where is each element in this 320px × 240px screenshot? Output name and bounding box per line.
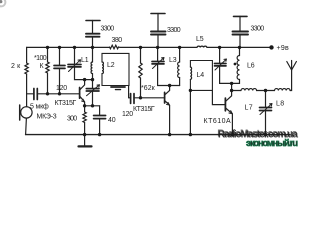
capacitor C1 3300 (86, 34, 100, 37)
svg-text:КТ610А: КТ610А (204, 118, 232, 125)
wire L3 bottom to node C (179, 78, 181, 86)
wire L1 bottom to node A (92, 74, 94, 80)
resistor R3 300 (83, 112, 86, 123)
wire rail down to trimmer C11 (219, 47, 221, 63)
svg-text:300: 300 (67, 116, 77, 123)
wire R1 to mic node (26, 74, 28, 107)
microphone BM1 MKE-3 (circle) (21, 107, 32, 118)
wire C2 to rail (157, 35, 159, 48)
svg-text:+9в: +9в (277, 45, 289, 52)
trimmer capacitor C11 (215, 64, 227, 66)
ground (top) for C3 (234, 15, 248, 17)
svg-text:L4: L4 (197, 72, 205, 79)
svg-text:120: 120 (122, 111, 133, 118)
wire C5 to base node (59, 68, 61, 93)
ground (top) for C2 (151, 13, 165, 15)
trimmer capacitor C7 (86, 89, 99, 91)
wire rail right segment to +9V terminal (207, 46, 272, 48)
inductor L8 (275, 89, 291, 91)
antenna WA1 (287, 61, 297, 71)
microphone membrane bar (19, 105, 21, 120)
svg-text:L1: L1 (81, 57, 89, 64)
wire C12 to ground rail (265, 111, 267, 135)
capacitor C2 3300 (151, 32, 166, 35)
inductor L4 loop box (190, 61, 212, 91)
transistor VT3 emitter lead with arrow (226, 108, 233, 135)
corner artifact mark (0, 0, 5, 6)
wire mic node to C4 (27, 93, 34, 95)
wire rail middle segment (119, 46, 198, 48)
wire collector node to L7 (232, 90, 241, 92)
wire node B down (emitter leg) (84, 106, 86, 112)
svg-text:L6: L6 (247, 63, 255, 70)
svg-text:2 к: 2 к (11, 63, 21, 70)
inductor L4 winding (190, 67, 191, 79)
node A wire (85, 79, 93, 81)
wire C3 to rail (239, 35, 241, 48)
svg-text:КТ315Г: КТ315Г (55, 100, 77, 107)
wire C9 to VT2 base node (134, 97, 141, 99)
inductor L3 (178, 62, 180, 78)
inductor L1 (91, 62, 92, 74)
transistor VT2 KT315G base bar (164, 92, 166, 103)
inductor L7 (241, 89, 257, 91)
ground (top) for C1 (86, 20, 100, 22)
wire C6 down and to collector node A (75, 67, 85, 80)
+9V terminal dot (269, 45, 273, 49)
wire C4 to base line of VT1 (37, 93, 79, 95)
wire C1 to rail (92, 37, 94, 47)
wire mic bottom to ground rail (25, 118, 28, 135)
transistor VT3 collector lead (226, 91, 232, 102)
transistor VT3 KT610A base bar (224, 98, 226, 111)
svg-text:3300: 3300 (167, 27, 181, 34)
ground symbol at L2 loop bottom (111, 86, 125, 88)
svg-text:5 мкф: 5 мкф (30, 104, 49, 111)
wire L8 to antenna (290, 70, 292, 91)
wire R2 to base node (47, 73, 49, 94)
svg-text:экономный.ru: экономный.ru (246, 138, 298, 148)
inductor L5 (series choke in rail) (197, 46, 207, 47)
capacitor C4 5uF plates (34, 89, 37, 100)
wire R3 to ground rail (84, 123, 86, 135)
wire rail down to L3 (179, 47, 181, 62)
wire L2 box to C9 (129, 86, 131, 98)
svg-text:L3: L3 (169, 57, 177, 64)
wire rail down to L6 (239, 47, 241, 55)
trimmer capacitor C12 (output) wire (265, 91, 267, 108)
svg-text:3300: 3300 (101, 26, 115, 33)
capacitor C9 120 (131, 94, 134, 104)
wire R4 to VT2 base node (140, 78, 142, 98)
transistor VT1 emitter lead with arrow (80, 96, 85, 106)
transistor VT1 collector lead (80, 80, 85, 90)
resistor R4 *62k (139, 63, 142, 78)
wire rail down to R4 (140, 47, 142, 63)
wire L4 loop to VT3 base (212, 90, 225, 104)
transistor VT2 collector lead (165, 86, 170, 95)
resistor R 380 (series in rail) (110, 45, 119, 49)
capacitor C3 3300 (233, 32, 249, 35)
capacitor C5 120 (54, 66, 65, 69)
svg-text:L2: L2 (107, 62, 115, 69)
svg-text:МКЭ-3: МКЭ-3 (37, 114, 57, 121)
ground symbol main (84, 135, 86, 146)
wire C1 ground stem (92, 21, 94, 34)
svg-text:КТ315Г: КТ315Г (133, 106, 155, 113)
trimmer capacitor C12 (260, 108, 272, 111)
wire rail down to L1 (92, 47, 94, 62)
wire rail down to trimmer C10 (157, 47, 159, 61)
wire rail down to trimmer C6 (74, 47, 76, 64)
resistor R2 *100K (46, 62, 49, 73)
wire L6 bottom to node D (232, 80, 240, 84)
svg-text:380: 380 (112, 37, 123, 44)
wire rail down to R1 (26, 47, 28, 63)
svg-text:*62к: *62к (141, 85, 156, 92)
transistor VT2 emitter lead with arrow (165, 101, 170, 135)
inductor L2 winding (102, 62, 103, 74)
svg-text:120: 120 (56, 85, 67, 92)
svg-text:L5: L5 (196, 36, 204, 43)
wire C11 down to node D (220, 66, 232, 84)
wire rail down to C5 (59, 47, 61, 65)
wire C2 ground stem (157, 14, 159, 32)
wire node B corner down to C8 (99, 106, 101, 116)
trimmer capacitor C10 (152, 62, 164, 64)
wire C3 ground stem (239, 16, 241, 31)
inductor L2 loop box (102, 53, 129, 85)
wire C10 down to node C (158, 64, 180, 86)
wire ground bottom rail (26, 134, 290, 136)
svg-text:40: 40 (108, 117, 116, 124)
wire +9V top rail left segment (27, 46, 110, 48)
trimmer capacitor C6 (68, 65, 81, 67)
wire C7 to emitter node B (92, 91, 94, 106)
capacitor C8 40 (94, 116, 106, 119)
wire rail down to R2 (47, 47, 49, 62)
wire L7 to L8 node (257, 90, 275, 92)
wire base node to VT2 (141, 97, 165, 99)
transistor VT1 KT315G base bar (79, 88, 81, 99)
svg-text:*100: *100 (34, 55, 47, 62)
svg-text:L8: L8 (276, 101, 284, 108)
node B wire (85, 105, 100, 107)
wire node A down to trimmer C7 (92, 80, 94, 89)
wire node D down to collector node (231, 83, 233, 90)
wire L4 bottom to ground rail (189, 90, 191, 134)
svg-text:L7: L7 (245, 105, 253, 112)
wire C8 to ground rail (99, 119, 101, 135)
resistor R1 2k (25, 63, 28, 74)
svg-text:3300: 3300 (251, 26, 265, 33)
inductor L6 (237, 56, 239, 80)
